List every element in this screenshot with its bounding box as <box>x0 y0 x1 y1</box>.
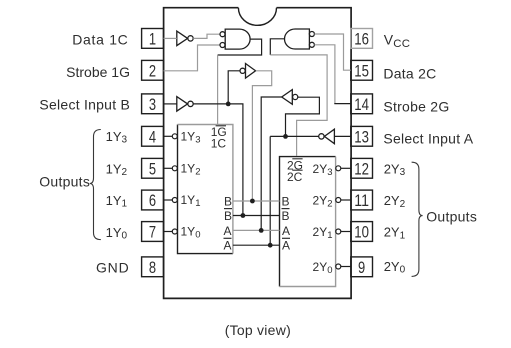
wire B-bar bus line <box>233 215 280 217</box>
wire pin15 to G2 top input (gray) <box>314 34 350 70</box>
inverter U7 (makes A) <box>282 90 298 105</box>
wire U5 out to B line (gray) <box>252 71 271 201</box>
decoder block U1 <box>178 125 233 254</box>
wire pin13 to U6 <box>334 135 350 137</box>
svg-text:1Y3: 1Y3 <box>181 130 201 146</box>
wire pin1 to U3 (gray) <box>164 37 177 39</box>
svg-text:Strobe 2G: Strobe 2G <box>383 99 449 115</box>
wire B bus line (gray) <box>233 200 280 202</box>
svg-text:Data 2C: Data 2C <box>383 66 436 82</box>
svg-text:6: 6 <box>149 191 156 210</box>
wire 2Y3 to pin12 <box>341 167 351 169</box>
right outputs brace <box>412 162 423 276</box>
U2 output bubble 2Y1 <box>336 229 341 234</box>
pin box 8 <box>142 257 164 277</box>
pin box 2 <box>142 60 164 80</box>
svg-text:2Y3: 2Y3 <box>384 162 406 179</box>
svg-text:B: B <box>224 209 232 223</box>
svg-text:12: 12 <box>354 159 369 178</box>
pin box 13 <box>351 126 373 146</box>
pin box 11 <box>351 190 373 210</box>
svg-text:Outputs: Outputs <box>426 208 477 224</box>
wire pin7 to 1Y0 <box>164 231 173 233</box>
U2 output bubble 2Y3 <box>336 166 341 171</box>
svg-text:(Top view): (Top view) <box>225 322 291 338</box>
svg-text:1Y2: 1Y2 <box>106 162 128 179</box>
svg-text:14: 14 <box>354 95 369 114</box>
svg-text:2Y0: 2Y0 <box>384 259 406 276</box>
pin box 4 <box>142 126 164 146</box>
svg-text:2: 2 <box>149 61 156 80</box>
svg-text:4: 4 <box>149 127 156 146</box>
wire 2Y1 to pin10 <box>341 231 351 233</box>
svg-text:A: A <box>223 224 231 238</box>
wire U6 out to node <box>270 135 319 137</box>
svg-text:Outputs: Outputs <box>39 174 90 190</box>
pin box 5 <box>142 158 164 178</box>
pin box 1 <box>142 29 164 49</box>
svg-text:9: 9 <box>358 258 365 277</box>
inverter U3 (Data 1C) <box>177 31 193 45</box>
svg-text:Select Input A: Select Input A <box>383 131 473 147</box>
pin box 10 <box>351 222 373 242</box>
svg-text:1Y1: 1Y1 <box>181 193 201 209</box>
svg-text:VCC: VCC <box>384 32 411 50</box>
pin box 6 <box>142 190 164 210</box>
svg-text:A: A <box>282 224 290 238</box>
node on select B line <box>226 102 231 107</box>
svg-text:2C: 2C <box>287 170 303 184</box>
node B <box>250 199 255 204</box>
node on select A line <box>283 134 288 139</box>
svg-text:1Y0: 1Y0 <box>181 225 201 241</box>
pin box 7 <box>142 222 164 242</box>
svg-text:GND: GND <box>96 259 130 275</box>
pin box 14 <box>351 94 373 114</box>
svg-text:2Y1: 2Y1 <box>384 225 406 242</box>
decoder block U2 <box>280 157 336 287</box>
U2 output bubble 2Y2 <box>336 198 341 203</box>
pin box 3 <box>142 94 164 114</box>
wire select A down to A-bar line <box>269 136 271 245</box>
svg-text:Strobe 1G: Strobe 1G <box>66 64 130 80</box>
U1 output bubble 1Y3 <box>172 134 177 139</box>
svg-text:7: 7 <box>149 223 156 242</box>
inverter U4 (Select B) <box>177 97 193 112</box>
node A-bar <box>268 243 273 248</box>
svg-text:8: 8 <box>149 258 156 277</box>
pin box 12 <box>351 158 373 178</box>
svg-text:2Y2: 2Y2 <box>384 193 406 210</box>
wire G1 output to U1 enable (black then gray vertical) <box>218 39 262 55</box>
svg-text:5: 5 <box>149 159 156 178</box>
svg-text:Data 1C: Data 1C <box>72 32 128 48</box>
svg-text:1: 1 <box>149 30 156 49</box>
pin box 16 (gray outline) <box>351 29 373 49</box>
node A <box>259 228 264 233</box>
wire pin3 to U4 <box>164 103 177 105</box>
svg-text:1Y2: 1Y2 <box>181 162 201 178</box>
svg-text:1Y0: 1Y0 <box>106 225 128 242</box>
U1 output bubble 1Y0 <box>172 229 177 234</box>
U1 output bubble 1Y2 <box>172 166 177 171</box>
wire G2 output to U2 enable <box>270 39 285 55</box>
left outputs brace <box>90 130 101 240</box>
U1 output bubble 1Y1 <box>172 198 177 203</box>
wire node up to U7 input <box>286 97 320 136</box>
wire 2Y2 to pin11 <box>341 199 351 201</box>
svg-text:B: B <box>282 209 290 223</box>
svg-text:A: A <box>223 239 231 253</box>
wire U3 out to G1 top input (gray) <box>193 34 220 38</box>
svg-text:15: 15 <box>354 61 369 80</box>
svg-text:1C: 1C <box>211 137 227 151</box>
wire U4 out to node and down to B-bar line <box>193 104 243 216</box>
inverter U6 (Select A, pin 13) <box>319 129 335 144</box>
svg-text:2Y2: 2Y2 <box>313 194 333 210</box>
wire A-bar bus line <box>233 244 280 246</box>
wire pin5 to 1Y2 <box>164 167 173 169</box>
svg-text:2Y1: 2Y1 <box>313 225 333 241</box>
svg-text:3: 3 <box>149 95 156 114</box>
svg-text:B: B <box>224 194 232 208</box>
svg-text:10: 10 <box>354 223 369 242</box>
pin box 15 <box>351 60 373 80</box>
wire pin6 to 1Y1 <box>164 199 173 201</box>
svg-text:A: A <box>282 239 290 253</box>
pin box 9 <box>351 257 373 277</box>
wire pin2 to G1 bottom input (gray) <box>164 45 220 71</box>
wire A bus line (gray) <box>233 229 280 231</box>
svg-text:B: B <box>282 194 290 208</box>
svg-text:1Y3: 1Y3 <box>106 129 128 146</box>
wire U7 out down to A line <box>261 97 282 230</box>
svg-text:2Y0: 2Y0 <box>313 260 333 276</box>
wire pin4 to 1Y3 <box>164 135 173 137</box>
svg-text:1Y1: 1Y1 <box>106 193 128 210</box>
svg-text:16: 16 <box>354 30 369 49</box>
inverter U5 (makes B) <box>240 64 256 79</box>
wire pin14 to G2 bottom input (gray vertical, black stub) <box>314 45 335 104</box>
package outline DIP-16 with notch <box>164 8 352 299</box>
NAND gate G2 (mirrored) <box>285 29 315 49</box>
U2 output bubble 2Y0 <box>336 264 341 269</box>
svg-text:Select Input B: Select Input B <box>39 97 130 113</box>
wire 2Y0 to pin9 <box>341 266 351 268</box>
node B-bar <box>241 213 246 218</box>
notch <box>238 8 276 26</box>
NAND gate G1 <box>220 29 250 49</box>
svg-text:2Y3: 2Y3 <box>313 162 333 178</box>
svg-text:13: 13 <box>354 127 369 146</box>
svg-text:11: 11 <box>354 191 369 210</box>
wire node up to U5 input <box>228 71 240 104</box>
